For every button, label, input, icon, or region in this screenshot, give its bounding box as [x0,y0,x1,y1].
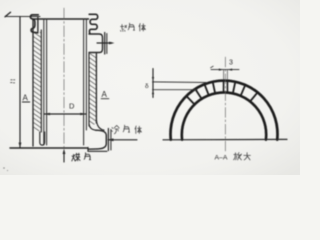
A-A arch inner arc [182,92,266,139]
svg-text:A–A: A–A [215,155,228,162]
bottom nozzle flow arrow [108,139,137,141]
ring thickness lower extension line [153,89,198,91]
arch centre line [224,57,226,152]
height-dimension bottom arrow [19,143,22,149]
label cold gas 冷气体 [112,125,142,134]
scan speck bottom left [3,167,5,169]
bottom nozzle cup [88,130,106,149]
right wall shell inner line [88,54,90,127]
diameter dimension line D [44,113,86,115]
left bellows inner edge [37,18,39,32]
left wall bottom foot U [40,132,45,145]
height-dimension top tick [5,12,11,17]
bottom base line [10,147,88,149]
coal-gas inlet arrow [63,149,66,155]
height-dimension line H [19,17,21,148]
svg-text:3: 3 [229,60,233,67]
svg-text:A: A [102,90,108,99]
left bellows expansion joint [30,15,38,33]
top nozzle flange [104,33,106,55]
right bellows expansion joint [89,14,98,33]
svg-text:A: A [23,94,29,103]
right lining line 1 [83,19,85,145]
arch springing base line [163,138,287,140]
label coal gas 煤气 [72,153,91,161]
caption 放大 [234,153,251,160]
brick joint radial ticks [187,83,258,105]
svg-text:δ: δ [145,83,149,90]
top rim line [33,18,89,20]
left wall hatched band [34,32,41,131]
ring thickness dimension line [152,69,154,98]
centre line of vessel [63,8,65,147]
right wall shell outer line [95,54,97,124]
height label (fuzzy) [11,80,15,83]
svg-text:D: D [69,102,75,111]
crown dimension end tick [211,66,214,68]
crown brick joint lines [223,81,225,93]
ring thickness upper extension line [153,81,208,84]
label hot gas 热气体 [121,23,146,31]
top nozzle cup [89,34,103,53]
bottom nozzle flange [107,129,109,151]
left wall shell outer line [32,19,34,146]
crown joint extension lines [223,70,225,82]
left lining line 1 [43,19,45,145]
top nozzle flow arrow [97,42,112,44]
left lining line 2 [46,19,48,145]
paper tone wash [0,0,300,175]
left wall shell inner line [40,30,42,132]
right lining line 2 [85,19,87,130]
A-A arch outer arc [171,81,278,140]
bottom right wall flare to nozzle [96,120,104,130]
bottom step under nozzle [88,147,107,151]
right wall hatched band [89,54,96,125]
height-dimension top extension line [6,16,40,18]
crown joint dimension line [211,69,239,71]
